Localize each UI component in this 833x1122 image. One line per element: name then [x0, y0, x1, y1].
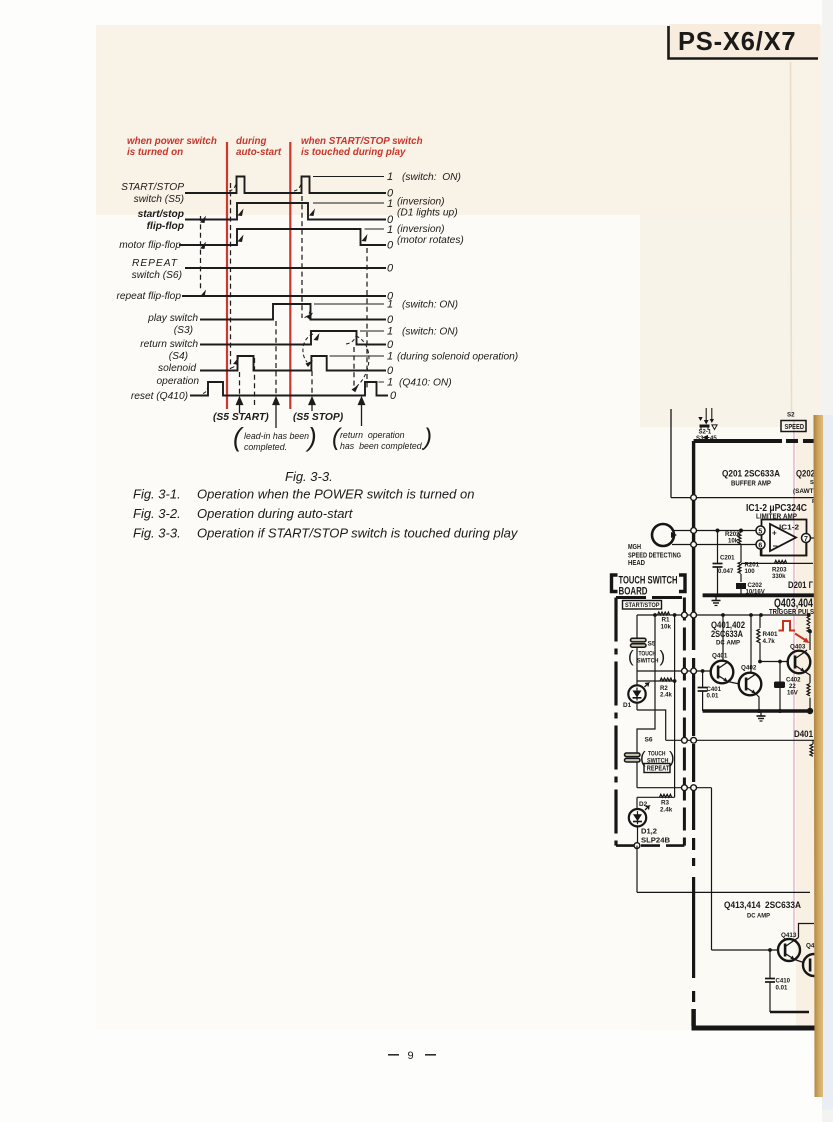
svg-text:S2: S2 [787, 412, 795, 419]
figure captions [133, 469, 519, 541]
red zone divider line 2 [289, 142, 291, 409]
pin 5 [756, 526, 765, 535]
transistor Q413 [778, 932, 800, 961]
right page edge tints [822, 0, 833, 1122]
wire: return high reference [360, 330, 384, 332]
capacitor C201 [713, 531, 723, 596]
wire: board output drop [636, 846, 638, 893]
svg-text:switch (S6): switch (S6) [132, 270, 182, 281]
svg-text:1: 1 [387, 299, 393, 311]
wire: S6 row vertical to Q413 [711, 788, 713, 950]
svg-text:5: 5 [758, 529, 762, 536]
switch S2 SPEED label [781, 412, 806, 432]
transistor Q402 [739, 665, 762, 696]
tan fold edge overlay [814, 415, 826, 1097]
svg-text:D201 Г: D201 Г [788, 579, 814, 590]
svg-text:during: during [236, 136, 266, 147]
wire: play high reference [314, 303, 384, 305]
svg-text:Q402: Q402 [741, 665, 757, 672]
svg-text:0.01: 0.01 [707, 693, 719, 700]
svg-text:Q403: Q403 [790, 644, 806, 651]
left-side signal labels [116, 182, 199, 402]
LED D1 [628, 681, 648, 710]
svg-text:switch (S5): switch (S5) [134, 194, 184, 205]
waveforms [179, 177, 388, 396]
svg-text:Operation when the POWER switc: Operation when the POWER switch is turne… [197, 487, 474, 502]
big dashed loop A: return rise to solenoid rise [303, 334, 313, 362]
wire: START/STOP switch S5 signal [185, 177, 386, 194]
svg-text:Q401: Q401 [712, 653, 728, 660]
wire: R3 row [637, 796, 675, 798]
svg-text:DC AMP: DC AMP [747, 913, 770, 920]
wire: op-amp output [810, 537, 815, 539]
TOUCH SWITCH BOARD title [612, 575, 686, 592]
transistor Q414 (clipped) [803, 943, 825, 977]
svg-text:TOUCH: TOUCH [648, 751, 666, 758]
svg-text:Q202: Q202 [796, 469, 815, 480]
ground symbol [712, 595, 721, 605]
svg-text:(motor rotates): (motor rotates) [397, 235, 464, 246]
svg-text:HEAD: HEAD [628, 558, 645, 567]
wire: head to pin5 [672, 530, 757, 532]
svg-text:+: + [772, 529, 777, 538]
wire: Q403 emitter with resistor [805, 672, 811, 712]
heavy dashed bus top rail [694, 439, 782, 443]
svg-text:(switch: ON): (switch: ON) [402, 327, 458, 338]
svg-text:reset (Q410): reset (Q410) [131, 391, 188, 402]
node dots on R1 row [653, 613, 657, 617]
resistor R201 [738, 545, 741, 583]
wire: solenoid high reference [330, 355, 385, 357]
wire: repeat flip-flop signal [182, 295, 386, 297]
svg-text:START/STOP: START/STOP [121, 182, 184, 193]
heavy bottom rail [692, 1026, 816, 1031]
transistor Q401 [711, 653, 734, 684]
wire: motor high reference [365, 228, 385, 230]
svg-text:when START/STOP switch: when START/STOP switch [301, 136, 423, 147]
svg-text:lead-in has been: lead-in has been [244, 431, 309, 441]
svg-text:D1: D1 [623, 702, 632, 709]
svg-text:D2: D2 [639, 801, 648, 808]
wire: Q413 base row [712, 949, 779, 951]
wire: ss flip-flop high reference [313, 202, 384, 204]
wire: head to pin6 [672, 544, 757, 546]
svg-text:1: 1 [387, 351, 393, 363]
svg-text:1: 1 [387, 198, 393, 210]
transistor Q403 [788, 644, 811, 674]
resistor R3 [660, 794, 672, 797]
dashed vertical timing guides [201, 183, 368, 407]
bottom annotations [213, 412, 344, 423]
big dashed loop B: return fall to reset rise [356, 336, 369, 387]
wire: Q402 emitter down [756, 694, 760, 712]
svg-text:(inversion): (inversion) [397, 224, 445, 235]
wire: R401 bottom node row [760, 661, 788, 663]
wire: Q401 collector up [722, 615, 724, 662]
svg-text:(Q410: ON): (Q410: ON) [399, 378, 452, 389]
wire: Q413 collector [799, 924, 815, 938]
svg-text:330k: 330k [772, 573, 786, 580]
wire: start/stop flip-flop signal [185, 203, 386, 220]
wire: long horizontal to right edge [637, 891, 810, 893]
svg-text:is turned on: is turned on [127, 147, 183, 158]
ground rail lower [703, 709, 810, 712]
wire: R2 right leg [674, 615, 676, 797]
faint page crease [791, 62, 792, 414]
wire: D1 cathode to D401 row [637, 710, 666, 740]
svg-text:(during solenoid operation): (during solenoid operation) [397, 352, 518, 363]
svg-text:2.4k: 2.4k [660, 807, 673, 814]
red zone headers [127, 136, 423, 158]
node dots [716, 529, 720, 533]
ground symbol [757, 711, 766, 721]
wire: R2 row [637, 680, 675, 682]
svg-text:motor flip-flop: motor flip-flop [119, 240, 181, 251]
svg-text:flip-flop: flip-flop [147, 221, 184, 232]
wire: S6 to output row [636, 762, 638, 788]
svg-text:completed.: completed. [244, 442, 287, 452]
svg-text:R1: R1 [662, 617, 671, 624]
svg-text:auto-start: auto-start [236, 147, 282, 158]
wire: solenoid operation signal [200, 356, 386, 371]
svg-text:Operation during auto-start: Operation during auto-start [197, 506, 354, 521]
svg-text:0: 0 [387, 339, 394, 351]
wire: reset Q410 signal [190, 382, 388, 396]
switch S5 START/STOP label [623, 601, 662, 610]
svg-text:(S4): (S4) [169, 351, 188, 362]
svg-text:is touched during play: is touched during play [301, 147, 406, 158]
wire: play switch S3 signal [200, 304, 386, 320]
wire: feed line from top left [670, 409, 672, 498]
svg-text:0: 0 [390, 390, 397, 402]
svg-text:1: 1 [387, 171, 393, 183]
wire: S6 row out [637, 787, 712, 789]
wire: S6 feed from R1 node [637, 615, 655, 753]
svg-text:0: 0 [387, 365, 394, 377]
svg-text:100: 100 [745, 568, 756, 575]
svg-text:operation: operation [157, 376, 200, 387]
resistor R1 [658, 612, 670, 615]
wire: reset high reference [379, 381, 385, 383]
svg-text:(inversion): (inversion) [397, 197, 445, 208]
red zone divider line 1 [226, 142, 228, 409]
svg-text:C410: C410 [776, 978, 791, 985]
capacitor C402 [775, 662, 785, 712]
wire: C410 bottom rail [770, 1011, 809, 1014]
svg-text:REPEAT: REPEAT [132, 258, 178, 269]
LED D2 [629, 797, 649, 845]
svg-text:(: ( [628, 647, 634, 666]
pin 7 [802, 534, 811, 543]
dashed transition arcs [203, 179, 369, 394]
svg-text:R401: R401 [763, 631, 779, 638]
svg-text:1: 1 [387, 224, 393, 236]
svg-text:IC1-2: IC1-2 [779, 523, 799, 532]
PS-X6/X7 header box [669, 24, 821, 59]
svg-text:10k: 10k [661, 624, 672, 631]
svg-text:Operation if START/STOP switch: Operation if START/STOP switch is touche… [197, 526, 519, 541]
svg-text:C201: C201 [720, 555, 735, 562]
svg-text:0.047: 0.047 [718, 568, 734, 575]
wire: S5 branch [636, 615, 638, 639]
svg-text:Fig. 3-1.: Fig. 3-1. [133, 487, 181, 502]
svg-text:9: 9 [408, 1050, 414, 1062]
svg-text:−: − [773, 541, 778, 551]
node: board output [634, 843, 640, 849]
wire: return switch S4 signal [200, 331, 386, 345]
svg-text:solenoid: solenoid [158, 363, 196, 374]
faint pink scan line [793, 420, 795, 940]
svg-text:Fig. 3-3.: Fig. 3-3. [285, 469, 333, 484]
wire: R1 row (S5 node line) [637, 614, 809, 616]
page number [388, 1050, 436, 1062]
bottom event arrows [237, 398, 365, 429]
wire: Q401 emitter to Q402 base [728, 682, 740, 685]
wire: REPEAT switch S6 signal [185, 267, 386, 269]
svg-text:START/STOP: START/STOP [625, 602, 660, 609]
node crossings [682, 612, 688, 618]
node: junction on bus [691, 495, 697, 501]
svg-text:S3: S3 [696, 436, 704, 442]
pin 6 [756, 540, 765, 549]
op-amp U IC1-2 [762, 520, 807, 556]
resistor R401 [757, 615, 760, 662]
node crossings on bus [691, 528, 697, 534]
wire: S5 output row to Q401 [637, 670, 711, 672]
wire: R203 row [741, 562, 813, 564]
wire: motor flip-flop signal [179, 229, 386, 245]
svg-text:2SC633A: 2SC633A [711, 629, 743, 639]
small solid transition arrows [200, 209, 368, 393]
svg-text:start/stop: start/stop [138, 209, 184, 220]
svg-text:0: 0 [387, 263, 394, 275]
svg-text:has been completed.: has been completed. [340, 441, 424, 451]
resistor R203 [775, 560, 787, 563]
svg-text:(S5 STOP): (S5 STOP) [293, 412, 344, 423]
svg-text:(SAWT: (SAWT [793, 488, 814, 495]
red trigger pulse [779, 621, 796, 631]
svg-text:SPEED: SPEED [785, 422, 805, 431]
svg-text:Fig. 3-2.: Fig. 3-2. [133, 506, 181, 521]
svg-text:Q4: Q4 [806, 943, 815, 950]
svg-text:REPEAT: REPEAT [647, 764, 670, 773]
wire: feedback loop pin6 [761, 542, 807, 556]
svg-text:when power switch: when power switch [127, 136, 217, 147]
resistor R2 [660, 678, 672, 681]
svg-text:TOUCH: TOUCH [639, 651, 657, 658]
svg-text:Fig. 3-3.: Fig. 3-3. [133, 526, 181, 541]
ground rail upper [703, 593, 814, 597]
capacitor C401 [698, 671, 708, 711]
svg-text:S6: S6 [645, 737, 653, 744]
svg-text:16V: 16V [787, 690, 799, 697]
svg-text:BOARD: BOARD [619, 586, 648, 598]
svg-text:(D1 lights up): (D1 lights up) [397, 208, 458, 219]
svg-text:(switch: ON): (switch: ON) [402, 172, 461, 183]
svg-text:D401: D401 [794, 728, 813, 739]
svg-text:10k: 10k [728, 538, 739, 545]
svg-text:45: 45 [710, 436, 717, 442]
wire: D401 row [666, 739, 816, 741]
right-side annotations [397, 172, 518, 389]
svg-text:play switch: play switch [147, 313, 198, 324]
svg-text:1: 1 [387, 326, 393, 338]
svg-text:0.01: 0.01 [776, 985, 788, 992]
capacitor C202 [737, 584, 746, 596]
capacitor C410 [765, 950, 775, 1012]
svg-text:PS-X6/X7: PS-X6/X7 [678, 28, 796, 56]
heavy bus vertical [692, 441, 695, 650]
svg-text:S2-1: S2-1 [699, 430, 712, 436]
svg-text:(switch: ON): (switch: ON) [402, 300, 458, 311]
svg-text:(S3): (S3) [174, 325, 193, 336]
svg-text:4.7k: 4.7k [763, 638, 776, 645]
svg-text:return switch: return switch [140, 339, 198, 350]
svg-text:D1,2: D1,2 [641, 827, 657, 836]
svg-text:Q413,414 2SC633A: Q413,414 2SC633A [724, 900, 801, 911]
wire: Q403 collector chain [807, 616, 810, 650]
svg-text:R3: R3 [661, 800, 670, 807]
speed detecting head [652, 524, 677, 546]
connector S2-1 [698, 408, 717, 430]
resistor R202 [738, 533, 741, 545]
right-side 1/0 level labels [387, 171, 397, 402]
resistor at right edge below D401 [810, 740, 813, 756]
touch board outline [616, 598, 684, 846]
wire: node line to IC board [671, 497, 814, 499]
wire: S5 high reference [313, 176, 384, 178]
wire: Q413 emitter to Q414 [795, 960, 804, 963]
svg-text:0: 0 [387, 240, 394, 252]
svg-text:2.4k: 2.4k [660, 692, 672, 699]
svg-text:SLP24B: SLP24B [641, 836, 671, 845]
wire: Q402 collector up [750, 615, 752, 674]
wire: below S5 [636, 647, 638, 681]
svg-text:1: 1 [387, 377, 393, 389]
svg-text:SWITCH: SWITCH [637, 658, 659, 665]
svg-text:0: 0 [387, 314, 394, 326]
svg-text:return operation: return operation [340, 430, 405, 440]
svg-text:Q201 2SC633A: Q201 2SC633A [722, 469, 780, 480]
red arrow [795, 634, 810, 644]
switch S5 touch pads [631, 638, 647, 647]
svg-text:BUFFER AMP: BUFFER AMP [731, 481, 771, 488]
svg-text:repeat flip-flop: repeat flip-flop [116, 291, 181, 302]
svg-text:): ) [660, 647, 666, 666]
svg-text:DC AMP: DC AMP [716, 640, 740, 647]
